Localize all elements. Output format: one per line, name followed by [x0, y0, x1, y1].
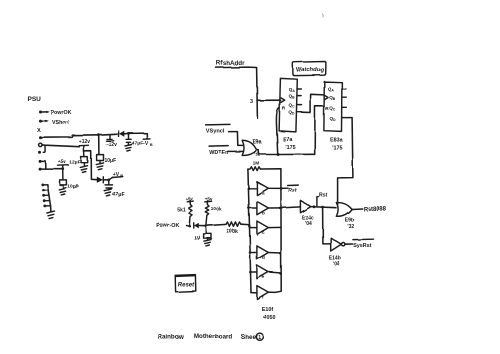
wire +12V to diode	[84, 151, 97, 180]
pin 5	[38, 151, 41, 154]
svg-text:a: a	[262, 191, 265, 196]
svg-text:Watchdog: Watchdog	[296, 68, 324, 74]
flip-flop U1 E7a '175	[279, 78, 297, 131]
svg-text:'04: '04	[333, 262, 340, 268]
watchdog title box	[293, 62, 326, 76]
svg-text:−V: −V	[142, 141, 149, 147]
buffer U3a	[247, 182, 281, 196]
value 47uF	[132, 141, 143, 147]
svg-text:c: c	[262, 230, 265, 235]
svg-text:+V: +V	[113, 172, 120, 178]
capacitor 10uF on -12V	[97, 135, 104, 164]
title Rainbow Motherboard Sheet 1	[158, 333, 263, 341]
flip-flop U2 E83a '175	[324, 82, 342, 132]
svg-text:+12v: +12v	[79, 139, 90, 145]
ground pins group	[41, 183, 51, 207]
ground	[47, 211, 55, 219]
buffer U3f	[257, 286, 281, 300]
pin QC	[289, 103, 302, 109]
node +5v	[205, 196, 213, 202]
wire U2 reset	[315, 106, 324, 154]
svg-text:1: 1	[258, 335, 261, 341]
pin 7	[39, 168, 65, 171]
svg-text:Rst: Rst	[319, 192, 328, 198]
diode D1 on -12V rail	[119, 131, 129, 137]
svg-text:VShort: VShort	[52, 120, 70, 126]
no-connect X mark	[37, 128, 41, 134]
buffer U3c	[248, 221, 281, 235]
svg-text:100k: 100k	[211, 206, 222, 211]
svg-text:Rst: Rst	[288, 188, 297, 194]
value 5k1	[177, 207, 186, 213]
svg-text:PowrOK: PowrOK	[51, 110, 72, 116]
svg-text:B: B	[120, 173, 123, 178]
pin clock U2	[325, 95, 329, 99]
wire chip2 QD to or-gate	[338, 118, 353, 205]
pin QA	[328, 87, 346, 93]
svg-text:Powr-OK: Powr-OK	[156, 223, 179, 229]
svg-text:d: d	[262, 255, 265, 260]
svg-text:'32: '32	[347, 224, 354, 230]
svg-text:E9b: E9b	[345, 218, 354, 224]
part label E83a '175	[330, 138, 344, 152]
capacitor 10uF on +5V	[60, 169, 67, 189]
node VShort pin 2	[39, 119, 70, 126]
node RC junction	[205, 224, 208, 227]
node junction +VB	[107, 179, 110, 182]
pin clock U1	[281, 98, 285, 103]
ground	[96, 163, 103, 170]
ground	[104, 189, 111, 196]
wire right rail	[280, 169, 282, 291]
svg-text:'04: '04	[305, 221, 312, 227]
buffer E14c '04	[300, 200, 336, 227]
capacitor 12uF on +12V	[81, 151, 88, 166]
pin R U2	[325, 106, 329, 112]
svg-text:QA: QA	[289, 87, 296, 93]
value 10uF	[68, 184, 79, 190]
svg-text:Motherboard: Motherboard	[194, 334, 232, 341]
svg-text:X: X	[37, 128, 41, 134]
pin 4 open circle	[39, 143, 80, 152]
node -VB terminal	[128, 133, 153, 147]
svg-text:E83a: E83a	[330, 138, 344, 144]
wire ground bus	[47, 184, 51, 211]
svg-text:1μ: 1μ	[193, 235, 201, 242]
svg-text:Rainbow: Rainbow	[158, 334, 184, 341]
svg-text:3: 3	[250, 99, 253, 105]
pin QC	[329, 105, 346, 111]
wire bottom rail	[251, 292, 257, 294]
buffer U3b	[248, 201, 282, 215]
value 10uF	[105, 158, 117, 164]
or-gate E9a '32	[242, 139, 262, 157]
wire E9a output to reset net	[257, 150, 315, 156]
svg-text:QC: QC	[289, 103, 296, 109]
svg-text:QC: QC	[329, 105, 336, 111]
wire Rst down to E14b	[323, 207, 331, 244]
capacitor 1u	[204, 226, 212, 241]
svg-text:10μF: 10μF	[105, 158, 117, 164]
value 1M	[253, 160, 260, 166]
pin QB	[289, 94, 302, 100]
svg-text:PSU: PSU	[28, 96, 42, 103]
value 100k	[211, 206, 222, 211]
svg-text:QB: QB	[289, 94, 296, 100]
node +12v tap	[79, 139, 90, 151]
diode D2 to +VB	[97, 177, 109, 183]
node Powr-OK net label	[156, 223, 190, 229]
node junction -VB	[127, 132, 130, 135]
wire oscillator box top	[261, 168, 281, 170]
value 12uF	[69, 160, 80, 166]
value 1u	[193, 235, 201, 242]
connector J1 PSU label	[28, 96, 42, 103]
pin 6	[39, 160, 46, 169]
pin QD	[288, 109, 301, 115]
svg-text:VSyncI: VSyncI	[206, 128, 225, 134]
resistor 1M feedback	[248, 167, 261, 171]
svg-text:QA: QA	[328, 87, 335, 93]
svg-text:Reset: Reset	[178, 283, 195, 289]
svg-text:WDTEn: WDTEn	[209, 150, 228, 156]
pin QA	[289, 87, 302, 93]
svg-text:QD: QD	[288, 109, 295, 115]
node +VB label	[109, 172, 124, 180]
resistor 100k series	[206, 222, 248, 226]
ground	[204, 240, 211, 246]
svg-text:E10f: E10f	[261, 307, 273, 313]
value 100k	[226, 229, 238, 235]
node +5v	[185, 196, 194, 202]
node SysRst	[353, 239, 374, 249]
node RfshAddr	[216, 60, 281, 118]
resistor 5k1	[188, 201, 192, 226]
svg-text:−12v: −12v	[106, 142, 117, 148]
svg-text:1M: 1M	[253, 160, 260, 166]
wire U1 QD to U2 clock	[302, 94, 324, 112]
svg-text:QD: QD	[330, 116, 337, 122]
svg-text:E9a: E9a	[253, 139, 262, 145]
wire buffer b output to E14c	[281, 207, 300, 208]
node Rst	[313, 192, 328, 208]
svg-text:'175: '175	[285, 145, 295, 151]
part label E7a '175	[283, 137, 296, 151]
stray pen mark	[321, 14, 324, 18]
svg-text:100k: 100k	[226, 229, 238, 235]
svg-text:RfshAddr: RfshAddr	[216, 60, 245, 67]
ground	[80, 166, 87, 173]
svg-text:+5v: +5v	[58, 159, 67, 165]
capacitor 47uF	[126, 133, 131, 145]
svg-text:QB: QB	[329, 95, 336, 101]
pin R U1	[282, 106, 286, 112]
node Rst-bar output	[280, 185, 298, 194]
or-gate E9b '32	[336, 203, 354, 231]
ground	[59, 188, 66, 195]
buffer U3d	[249, 246, 282, 260]
wire pin3 to -12V rail	[39, 135, 99, 139]
buffer U3e	[249, 265, 282, 279]
inverter E14b '04	[329, 238, 353, 268]
ground	[125, 145, 132, 152]
svg-text:12μF: 12μF	[69, 160, 80, 166]
svg-text:Rst8088: Rst8088	[363, 207, 387, 213]
svg-text:10μF: 10μF	[68, 184, 79, 190]
svg-text:e: e	[262, 274, 265, 279]
svg-text:'175: '175	[332, 145, 342, 151]
node junction -12V rail	[97, 133, 118, 136]
svg-text:E7a: E7a	[283, 137, 294, 143]
value 47uF	[113, 192, 125, 198]
svg-text:SysRst: SysRst	[353, 243, 371, 249]
node +5v tap	[58, 159, 69, 169]
node WDTEn	[209, 146, 243, 156]
svg-text:B: B	[150, 143, 153, 147]
note box Reset	[175, 275, 196, 292]
svg-text:Sheet: Sheet	[241, 333, 258, 340]
capacitor 47uF on +VB	[105, 180, 112, 190]
node VSyncI	[206, 124, 243, 145]
resistor 100k pullup	[205, 201, 209, 226]
node PowrOK pin 1	[39, 110, 72, 116]
part label E10f 4050	[261, 307, 275, 321]
wire U1 reset down	[276, 108, 279, 154]
pin QB	[329, 95, 346, 101]
svg-text:4050: 4050	[263, 315, 275, 321]
pin QD	[330, 116, 337, 122]
wire left rail	[248, 169, 251, 293]
svg-text:47μF: 47μF	[113, 192, 125, 198]
svg-text:b: b	[262, 210, 265, 215]
svg-text:R: R	[282, 106, 286, 112]
capacitor tap -12v	[106, 134, 117, 148]
svg-text:R: R	[325, 106, 329, 112]
diode D3	[194, 223, 206, 229]
svg-text:5k1: 5k1	[177, 207, 186, 213]
node Rst8088 output	[352, 207, 387, 213]
